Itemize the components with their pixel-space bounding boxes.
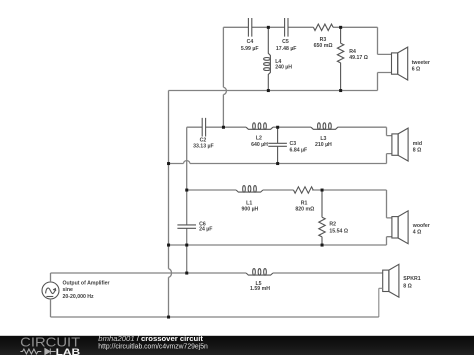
svg-text:6 Ω: 6 Ω — [412, 66, 421, 72]
node return junction — [167, 316, 170, 319]
label SPKR1 — [403, 276, 420, 290]
speaker SPKR1 — [379, 264, 399, 317]
svg-text:R4: R4 — [349, 49, 356, 55]
svg-text:C5: C5 — [282, 39, 289, 45]
svg-text:49.17 Ω: 49.17 Ω — [349, 55, 368, 61]
node feed junction — [185, 272, 188, 275]
svg-text:240 µH: 240 µH — [275, 65, 292, 71]
wire top loop top side — [223, 27, 391, 54]
svg-text:tweeter: tweeter — [412, 60, 430, 66]
wire vertical feed to top loop — [223, 27, 226, 127]
node woofer feed — [185, 189, 188, 192]
svg-text:640 µH: 640 µH — [251, 142, 268, 148]
speaker mid — [392, 128, 408, 161]
capacitor C4 — [248, 18, 251, 37]
label C6 — [199, 222, 212, 233]
node C3 bottom — [276, 162, 279, 165]
label R2 — [329, 222, 348, 235]
node C4-C5-L4 — [267, 26, 270, 29]
label L2 — [251, 136, 268, 149]
inductor L1 — [236, 186, 263, 193]
svg-text:R1: R1 — [301, 200, 308, 206]
label R3 — [314, 37, 333, 49]
svg-text:C4: C4 — [247, 39, 254, 45]
label source — [63, 280, 110, 299]
svg-text:4 Ω: 4 Ω — [413, 230, 422, 236]
logo CIRCUIT text — [20, 334, 80, 349]
svg-text:6.84 µF: 6.84 µF — [290, 147, 308, 153]
svg-text:20-20,000 Hz: 20-20,000 Hz — [63, 294, 95, 300]
wire woofer loop bottom side — [169, 237, 392, 245]
node R4 bottom — [339, 89, 342, 92]
label C4 — [241, 39, 259, 52]
wire source top lead — [51, 273, 187, 282]
speaker woofer — [392, 211, 408, 244]
svg-text:5.99 µF: 5.99 µF — [241, 46, 259, 52]
svg-text:650 mΩ: 650 mΩ — [314, 43, 333, 49]
svg-text:SPKR1: SPKR1 — [403, 276, 420, 282]
svg-text:http://circuitlab.com/c4vmzw72: http://circuitlab.com/c4vmzw729ej5n — [98, 342, 208, 351]
label C3 — [290, 141, 308, 153]
inductor L3 — [311, 123, 338, 130]
resistor R1 — [294, 187, 314, 193]
label L4 — [275, 59, 292, 71]
capacitor C2 — [202, 118, 205, 137]
svg-text:L1: L1 — [246, 200, 252, 206]
node L4 bottom — [267, 89, 270, 92]
footer url text — [98, 342, 208, 351]
logo diode symbol — [45, 349, 56, 355]
node mid return — [167, 162, 170, 165]
footer title text — [98, 334, 203, 343]
wire mid loop bottom side — [169, 154, 392, 164]
svg-text:C3: C3 — [290, 141, 297, 147]
svg-text:L3: L3 — [320, 136, 326, 142]
resistor R3 — [313, 24, 333, 30]
capacitor C5 — [285, 18, 288, 37]
wire bottom feed to L5 — [187, 272, 383, 274]
node feed mid top — [222, 126, 225, 129]
label R1 — [295, 200, 314, 212]
label tweeter — [412, 60, 430, 73]
svg-text:8 Ω: 8 Ω — [413, 148, 422, 154]
svg-text:woofer: woofer — [412, 223, 430, 229]
label L5 — [250, 281, 270, 292]
label R4 — [349, 49, 368, 61]
speaker tweeter — [392, 47, 408, 80]
capacitor C3 — [268, 127, 287, 163]
label woofer — [412, 223, 430, 236]
svg-text:210 µH: 210 µH — [315, 142, 332, 148]
wire woofer loop top side — [187, 190, 392, 218]
svg-text:17.48 µF: 17.48 µF — [276, 46, 297, 52]
svg-text:1.59 mH: 1.59 mH — [250, 286, 270, 292]
inductor L2 — [246, 123, 273, 130]
node R3-R4 — [339, 26, 342, 29]
wire source bottom lead — [51, 299, 379, 317]
logo resistor squiggle — [20, 349, 41, 354]
wire line A return bus — [169, 91, 172, 318]
wire top loop bottom side — [169, 73, 392, 91]
footer bar — [0, 336, 474, 355]
svg-text:24 µF: 24 µF — [199, 227, 212, 233]
inductor L5 — [246, 269, 273, 276]
svg-text:8 Ω: 8 Ω — [403, 284, 412, 290]
svg-text:15.54 Ω: 15.54 Ω — [329, 228, 348, 234]
wire line B feed bus — [186, 127, 188, 273]
svg-text:LAB: LAB — [56, 347, 81, 355]
label L1 — [241, 200, 258, 212]
svg-text:820 mΩ: 820 mΩ — [295, 207, 314, 213]
inductor L4 — [264, 27, 271, 90]
svg-text:L2: L2 — [256, 136, 262, 142]
svg-text:R2: R2 — [329, 222, 336, 228]
capacitor C6 — [177, 225, 196, 228]
svg-text:sine: sine — [63, 287, 73, 293]
label C2 — [193, 138, 214, 150]
svg-text:Output of Amplifier: Output of Amplifier — [63, 280, 110, 286]
logo LAB text — [56, 347, 81, 355]
node dots — [167, 26, 342, 319]
wire mid loop top side — [187, 127, 392, 135]
resistor R2 — [319, 190, 325, 245]
node R1-R2 — [321, 189, 324, 192]
label L3 — [315, 136, 332, 148]
node woofer return B — [185, 244, 188, 247]
svg-text:33.13 µF: 33.13 µF — [193, 143, 214, 149]
node woofer return A — [167, 244, 170, 247]
svg-text:mid: mid — [413, 141, 422, 147]
label C5 — [276, 39, 297, 52]
node L2-C3-L3 — [276, 126, 279, 129]
svg-text:900 µH: 900 µH — [241, 207, 258, 213]
node R2 bottom — [321, 244, 324, 247]
svg-text:R3: R3 — [320, 37, 327, 43]
source V1 sine — [42, 282, 59, 299]
label mid — [413, 141, 422, 154]
resistor R4 — [337, 27, 343, 90]
